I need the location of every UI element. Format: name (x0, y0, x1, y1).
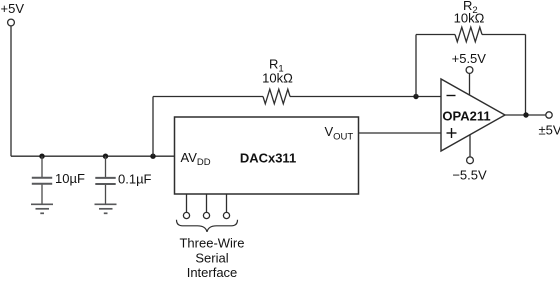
wire -5.5V stub (469, 135, 471, 157)
node label +/-5V (539, 123, 560, 138)
pin stub serial 1 (186, 194, 188, 212)
pin stub serial 2 (206, 194, 208, 212)
reference label R1 (269, 56, 284, 74)
wire R1 branch vertical (152, 97, 154, 157)
svg-text:−5.5V: −5.5V (452, 168, 487, 183)
ground G2 (95, 204, 117, 213)
svg-text:10kΩ: 10kΩ (262, 71, 293, 86)
wire +5V vertical (10, 26, 12, 157)
terminal serial 1 (183, 212, 189, 218)
wire VOUT to op-amp noninverting input (359, 132, 442, 134)
brace three-wire group (177, 220, 238, 232)
junction dot output (523, 112, 528, 117)
part name OPA211 (442, 109, 490, 124)
resistor R2 (455, 27, 482, 42)
svg-text:Three-Wire: Three-Wire (179, 235, 244, 250)
part name DACx311 (240, 151, 296, 166)
wire cap1 lower lead (41, 185, 43, 204)
wire feedback left vertical (415, 35, 417, 97)
junction dot feedback left (413, 94, 418, 99)
wire feedback right vertical (525, 35, 527, 116)
supply label -5.5V (452, 168, 487, 183)
node +5V label (1, 1, 25, 16)
value label R2 10k (454, 10, 485, 25)
wire op-amp output (505, 114, 546, 116)
svg-text:+5V: +5V (1, 1, 25, 16)
wire cap1 upper lead (41, 156, 43, 177)
terminal serial 3 (223, 212, 229, 218)
wire R1 left (153, 96, 263, 98)
DAC U1 DACx311 box (175, 117, 359, 194)
value label 0.1uF (118, 171, 152, 186)
svg-text:DACx311: DACx311 (240, 151, 296, 166)
wire R1 right to op-amp inverting input (290, 96, 441, 98)
value label 10uF (55, 171, 85, 186)
junction dot cap2 (103, 154, 108, 159)
svg-text:0.1µF: 0.1µF (118, 171, 152, 186)
caption Three-Wire Serial Interface (179, 235, 244, 280)
capacitor C2 plates (95, 178, 115, 184)
value label R1 10k (262, 71, 293, 86)
op-amp minus input mark (447, 95, 456, 97)
wire +5.5V stub (469, 73, 471, 95)
svg-text:±5V: ±5V (539, 123, 560, 138)
wire feedback top left (416, 34, 455, 36)
terminal +5V (8, 19, 15, 26)
ground G1 (31, 204, 53, 213)
capacitor C1 plates (32, 178, 52, 184)
terminal output (546, 112, 552, 118)
pin label AVDD (181, 150, 211, 168)
terminal +5.5V (466, 67, 473, 74)
terminal -5.5V (467, 157, 474, 164)
wire feedback top right (482, 34, 526, 36)
pin label VOUT (325, 124, 354, 143)
svg-text:OPA211: OPA211 (442, 109, 490, 124)
junction dot cap1 (39, 154, 44, 159)
terminal serial 2 (203, 212, 209, 218)
resistor R1 (263, 89, 290, 104)
pin stub serial 3 (226, 194, 228, 212)
wire cap2 lower lead (105, 185, 107, 204)
svg-text:Serial: Serial (195, 250, 228, 265)
wire cap2 upper lead (105, 156, 107, 177)
supply label +5.5V (452, 51, 487, 66)
reference label R2 (463, 0, 478, 16)
svg-text:10kΩ: 10kΩ (454, 10, 485, 25)
svg-text:Interface: Interface (187, 265, 238, 278)
junction dot R1 branch (150, 154, 155, 159)
svg-text:10µF: 10µF (55, 171, 85, 186)
svg-text:+5.5V: +5.5V (452, 51, 487, 66)
op-amp plus input mark (447, 128, 457, 138)
op-amp U2 OPA211 (441, 79, 505, 151)
wire +5V rail (11, 155, 175, 157)
